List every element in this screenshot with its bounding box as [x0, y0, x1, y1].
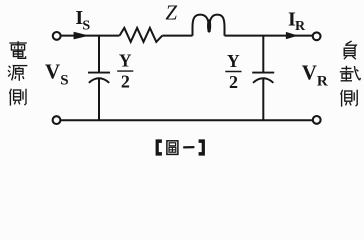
- label 載 (load-side column): [340, 66, 361, 81]
- value label Y/2 right: [225, 51, 241, 92]
- wire capacitor right to bottom rail: [262, 79, 264, 121]
- svg-text:S: S: [82, 18, 90, 33]
- label 側 (source-side column): [9, 89, 26, 106]
- wire between resistor and inductor: [162, 35, 192, 37]
- arrow Is: [74, 32, 90, 40]
- caption 圖: [167, 141, 178, 155]
- value label Y/2 left: [117, 50, 133, 91]
- node B : junction right (top wire to Y/2): [262, 36, 264, 72]
- caption bracket 】: [199, 139, 205, 155]
- label 側 (load-side column): [341, 90, 358, 107]
- wire inductor to terminal top-right: [225, 35, 313, 37]
- inductor crossing loop: [207, 19, 211, 33]
- svg-text:Z: Z: [165, 0, 177, 24]
- inductor (part of Z): [193, 15, 209, 36]
- svg-text:R: R: [295, 19, 306, 34]
- terminal top-right: [313, 32, 321, 40]
- caption 一: [183, 146, 194, 149]
- resistor (part of Z): [120, 28, 163, 42]
- wire bottom rail: [60, 119, 313, 121]
- svg-text:V: V: [302, 61, 317, 85]
- arrow IR: [286, 32, 298, 39]
- terminal top-left: [53, 32, 61, 40]
- caption bracket 【: [156, 139, 162, 155]
- label 電 (source-side column): [9, 41, 26, 58]
- svg-text:V: V: [45, 60, 60, 84]
- label 負 (load-side column): [344, 41, 356, 59]
- capacitor Y/2 left : flat plate: [88, 72, 110, 74]
- svg-text:2: 2: [121, 72, 130, 92]
- label 源 (source-side column): [8, 66, 27, 81]
- svg-text:Y: Y: [227, 51, 240, 71]
- capacitor Y/2 left : curved plate: [89, 78, 109, 83]
- capacitor Y/2 right : curved plate: [253, 78, 273, 83]
- terminal bottom-right: [313, 116, 321, 124]
- capacitor Y/2 right : flat plate: [252, 72, 274, 74]
- wire capacitor left to bottom rail: [98, 79, 100, 121]
- svg-text:Y: Y: [119, 50, 132, 70]
- svg-text:2: 2: [229, 72, 238, 92]
- svg-text:S: S: [60, 73, 68, 89]
- svg-text:R: R: [317, 73, 328, 89]
- terminal bottom-left: [53, 116, 61, 124]
- node A : junction left (top wire to Y/2): [98, 36, 100, 72]
- wire top-left segment: [61, 35, 120, 37]
